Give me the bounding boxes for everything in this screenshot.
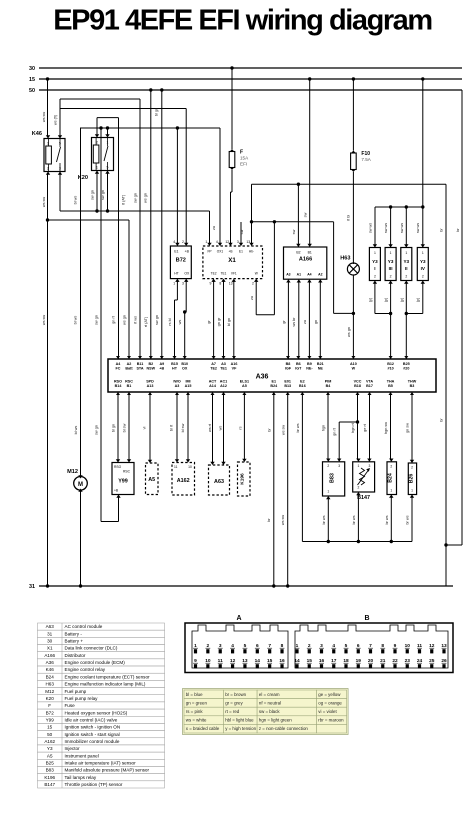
svg-text:el = cream: el = cream <box>259 692 280 697</box>
svg-text:EFI: EFI <box>240 162 247 167</box>
svg-text:ws: ws <box>178 320 182 325</box>
svg-text:B8: B8 <box>286 362 291 366</box>
svg-text:30: 30 <box>29 66 35 72</box>
svg-text:1: 1 <box>173 282 175 286</box>
svg-text:THW: THW <box>408 379 417 383</box>
svg-text:A3: A3 <box>221 362 226 366</box>
svg-text:rs = pink: rs = pink <box>186 709 204 714</box>
svg-text:nf = neutral: nf = neutral <box>259 700 281 705</box>
svg-text:A5: A5 <box>148 477 155 483</box>
svg-text:bl sw: bl sw <box>122 423 126 432</box>
svg-text:Injector: Injector <box>65 746 81 751</box>
svg-text:B3: B3 <box>410 384 415 388</box>
svg-text:7.5A: 7.5A <box>361 157 371 162</box>
svg-text:bl = blue: bl = blue <box>186 692 203 697</box>
svg-text:B25: B25 <box>46 761 55 766</box>
svg-text:A16: A16 <box>231 362 238 366</box>
svg-text:ge = yellow: ge = yellow <box>318 692 341 697</box>
svg-text:hgn rt: hgn rt <box>351 422 355 433</box>
svg-text:I: I <box>374 266 375 271</box>
svg-text:A1: A1 <box>297 273 301 277</box>
svg-text:F: F <box>48 703 51 708</box>
svg-text:A162: A162 <box>44 739 55 744</box>
svg-text:Engine control relay: Engine control relay <box>65 667 106 672</box>
svg-text:Y3: Y3 <box>388 259 394 264</box>
svg-text:OX1: OX1 <box>217 250 224 254</box>
svg-text:K46: K46 <box>46 667 55 672</box>
svg-text:rt (AT): rt (AT) <box>121 194 125 205</box>
svg-text:vi = violet: vi = violet <box>318 709 337 714</box>
svg-text:ws gn: ws gn <box>143 193 147 203</box>
svg-text:gn = green: gn = green <box>186 700 208 705</box>
svg-text:M: M <box>78 482 83 488</box>
svg-text:III: III <box>389 266 393 271</box>
svg-text:1: 1 <box>205 240 207 244</box>
svg-text:(y): (y) <box>400 297 404 302</box>
svg-text:M12: M12 <box>45 689 54 694</box>
svg-text:Hb-: Hb- <box>249 250 254 254</box>
svg-text:A3: A3 <box>286 273 290 277</box>
svg-text:B25: B25 <box>403 362 410 366</box>
svg-text:rs: rs <box>238 426 242 429</box>
svg-text:sw: sw <box>240 229 244 234</box>
svg-text:IGF: IGF <box>285 367 292 371</box>
svg-text:3: 3 <box>368 464 370 468</box>
svg-text:Y3: Y3 <box>420 259 426 264</box>
svg-text:A10: A10 <box>350 362 357 366</box>
svg-text:A12: A12 <box>220 384 227 388</box>
svg-text:IWO: IWO <box>173 379 181 383</box>
svg-text:B21: B21 <box>317 362 324 366</box>
svg-text:B15: B15 <box>171 362 178 366</box>
svg-text:1: 1 <box>107 141 109 145</box>
svg-text:H63: H63 <box>340 256 350 262</box>
svg-text:B10: B10 <box>181 362 188 366</box>
svg-text:bl gn: bl gn <box>111 424 115 432</box>
svg-text:15: 15 <box>29 77 35 83</box>
svg-text:RSO: RSO <box>114 465 122 469</box>
svg-text:E1: E1 <box>174 250 178 254</box>
svg-text:1: 1 <box>390 489 392 493</box>
svg-text:VF1: VF1 <box>231 272 237 276</box>
svg-text:Y3: Y3 <box>47 746 53 751</box>
svg-text:2: 2 <box>47 167 49 171</box>
svg-text:3: 3 <box>182 282 184 286</box>
svg-text:gn rt: gn rt <box>333 427 337 436</box>
svg-text:bl rt: bl rt <box>169 424 173 431</box>
svg-text:Ignition switch - ignition ON: Ignition switch - ignition ON <box>65 725 121 730</box>
svg-text:ws (fl): ws (fl) <box>53 114 57 125</box>
svg-text:+B: +B <box>159 367 164 371</box>
svg-text:E1: E1 <box>272 379 277 383</box>
svg-text:Idle air control (IAC) valve: Idle air control (IAC) valve <box>65 717 118 722</box>
svg-text:bl ws: bl ws <box>73 316 77 325</box>
svg-text:ws sw: ws sw <box>42 112 46 123</box>
svg-text:W: W <box>255 272 258 276</box>
svg-text:IGT: IGT <box>295 367 302 371</box>
svg-text:B72: B72 <box>176 258 186 264</box>
svg-text:A2: A2 <box>318 273 322 277</box>
svg-text:W: W <box>352 367 356 371</box>
svg-text:ACT: ACT <box>209 379 217 383</box>
svg-text:15A: 15A <box>240 156 249 161</box>
svg-text:1: 1 <box>374 251 376 255</box>
svg-text:NE-: NE- <box>306 367 313 371</box>
svg-text:5: 5 <box>59 142 61 146</box>
svg-text:og = orange: og = orange <box>318 700 342 705</box>
svg-text:ws sw: ws sw <box>281 425 285 436</box>
svg-text:PIM: PIM <box>325 379 332 383</box>
svg-text:sw gn: sw gn <box>94 315 98 325</box>
svg-text:2: 2 <box>390 465 392 469</box>
svg-text:A7: A7 <box>211 362 216 366</box>
svg-text:11: 11 <box>174 465 178 469</box>
svg-text:A63: A63 <box>46 624 55 629</box>
svg-text:E2: E2 <box>300 379 305 383</box>
svg-text:FP: FP <box>207 250 211 254</box>
svg-text:TE1: TE1 <box>220 367 227 371</box>
svg-text:9: 9 <box>209 282 211 286</box>
svg-text:A36: A36 <box>46 660 55 665</box>
svg-text:FC: FC <box>116 367 121 371</box>
svg-text:1: 1 <box>327 490 329 494</box>
svg-text:Ignition switch - start signal: Ignition switch - start signal <box>65 732 120 737</box>
svg-text:ws sw: ws sw <box>42 315 46 326</box>
svg-text:VCC: VCC <box>354 379 362 383</box>
svg-text:Battery +: Battery + <box>65 639 84 644</box>
svg-text:br = brown: br = brown <box>225 692 246 697</box>
svg-text:B9: B9 <box>307 362 312 366</box>
svg-text:sw ws: sw ws <box>384 223 388 233</box>
svg-text:B2: B2 <box>296 251 300 255</box>
svg-text:ws sw: ws sw <box>281 515 285 526</box>
svg-text:B147: B147 <box>357 495 370 501</box>
svg-text:sw ws: sw ws <box>416 223 420 233</box>
svg-text:zu: zu <box>250 296 254 300</box>
svg-text:Instrument panel: Instrument panel <box>65 753 99 758</box>
svg-text:Batt: Batt <box>125 367 133 371</box>
svg-text:sw = black: sw = black <box>259 709 280 714</box>
svg-text:B83: B83 <box>46 768 55 773</box>
svg-text:2: 2 <box>327 464 329 468</box>
svg-text:B11: B11 <box>137 362 144 366</box>
svg-text:ws: ws <box>218 426 222 431</box>
svg-text:5: 5 <box>107 166 109 170</box>
svg-text:Tail lamps relay: Tail lamps relay <box>65 775 97 780</box>
svg-text:31: 31 <box>47 631 53 636</box>
svg-text:B5: B5 <box>388 384 393 388</box>
svg-text:B14: B14 <box>115 384 123 388</box>
svg-text:B13: B13 <box>284 384 291 388</box>
svg-text:br ws: br ws <box>322 515 326 524</box>
svg-text:B72: B72 <box>46 710 55 715</box>
svg-text:A9: A9 <box>159 362 164 366</box>
svg-text:zu: zu <box>212 226 216 230</box>
svg-text:A: A <box>236 615 241 622</box>
svg-text:B18: B18 <box>354 384 361 388</box>
svg-text:vi: vi <box>142 426 146 429</box>
svg-text:4: 4 <box>216 240 218 244</box>
svg-text:Fuse: Fuse <box>65 703 76 708</box>
svg-text:ws gn: ws gn <box>122 315 126 325</box>
svg-text:Y99: Y99 <box>118 479 128 485</box>
svg-text:sw gn: sw gn <box>90 190 94 200</box>
svg-text:zu: zu <box>303 320 307 324</box>
svg-text:50: 50 <box>29 88 35 94</box>
svg-text:rt bl: rt bl <box>346 215 350 221</box>
svg-text:ws sw: ws sw <box>42 197 46 208</box>
svg-text:1: 1 <box>357 464 359 468</box>
svg-text:Immobilizer control module: Immobilizer control module <box>65 739 120 744</box>
svg-text:A162: A162 <box>177 478 190 484</box>
svg-text:rbr = maroon: rbr = maroon <box>318 718 344 723</box>
svg-text:Intake air temperature (IAT) s: Intake air temperature (IAT) sensor <box>65 761 137 766</box>
svg-text:1: 1 <box>47 142 49 146</box>
svg-text:#20: #20 <box>403 367 409 371</box>
svg-text:bl gn: bl gn <box>154 108 158 116</box>
svg-text:B1: B1 <box>308 251 312 255</box>
svg-text:A166: A166 <box>299 257 312 263</box>
svg-text:gn: gn <box>314 320 318 324</box>
svg-text:2: 2 <box>357 486 359 490</box>
svg-text:sw gn: sw gn <box>133 193 137 203</box>
svg-text:rt = red: rt = red <box>225 709 240 714</box>
svg-text:hbl = light blue: hbl = light blue <box>225 718 254 723</box>
svg-text:B26: B26 <box>408 474 414 484</box>
svg-text:B83: B83 <box>330 473 336 483</box>
svg-text:Heated oxygen sensor (HO2S): Heated oxygen sensor (HO2S) <box>65 710 128 715</box>
svg-text:TE1: TE1 <box>221 272 227 276</box>
svg-text:bl gn: bl gn <box>227 318 231 326</box>
svg-text:ELS1: ELS1 <box>240 379 249 383</box>
svg-text:A2: A2 <box>127 362 132 366</box>
svg-text:3: 3 <box>59 167 61 171</box>
svg-text:2: 2 <box>182 240 184 244</box>
svg-text:br ws: br ws <box>352 515 356 524</box>
svg-text:B16: B16 <box>299 384 306 388</box>
svg-text:rt (AT): rt (AT) <box>144 316 148 327</box>
svg-text:E1: E1 <box>239 250 243 254</box>
svg-text:B24: B24 <box>388 473 394 483</box>
svg-text:B147: B147 <box>44 782 55 787</box>
svg-text:sw ws: sw ws <box>400 223 404 233</box>
svg-text:sw gn: sw gn <box>155 315 159 325</box>
svg-text:Y3: Y3 <box>403 259 409 264</box>
svg-text:B17: B17 <box>366 384 373 388</box>
svg-text:+B: +B <box>185 250 190 254</box>
svg-text:2: 2 <box>422 275 424 279</box>
svg-text:B6: B6 <box>296 362 301 366</box>
svg-text:1: 1 <box>390 251 392 255</box>
svg-text:TE2: TE2 <box>210 367 217 371</box>
svg-text:HT: HT <box>174 272 179 276</box>
svg-text:13: 13 <box>229 282 233 286</box>
svg-text:15: 15 <box>47 725 53 730</box>
svg-text:sw ws: sw ws <box>368 223 372 233</box>
svg-text:K196: K196 <box>44 775 55 780</box>
svg-text:Engine malfunction indicator l: Engine malfunction indicator lamp (MIL) <box>65 682 146 687</box>
svg-text:K46: K46 <box>32 131 42 137</box>
svg-text:A13: A13 <box>147 384 154 388</box>
svg-text:ws br: ws br <box>292 317 296 327</box>
svg-text:Y3: Y3 <box>372 259 378 264</box>
svg-text:NSW: NSW <box>146 367 155 371</box>
svg-text:X1: X1 <box>228 257 236 264</box>
svg-text:B: B <box>364 615 369 622</box>
svg-text:2: 2 <box>390 275 392 279</box>
svg-text:sw: sw <box>292 229 296 234</box>
svg-text:3: 3 <box>338 464 340 468</box>
svg-text:ws rt: ws rt <box>208 423 212 432</box>
svg-text:VF: VF <box>232 367 237 371</box>
svg-text:H63: H63 <box>45 682 54 687</box>
svg-text:VTA: VTA <box>366 379 373 383</box>
svg-text:10: 10 <box>188 465 192 469</box>
svg-text:1: 1 <box>96 166 98 170</box>
svg-text:IMI: IMI <box>185 379 190 383</box>
svg-text:4: 4 <box>173 240 175 244</box>
svg-text:B1: B1 <box>127 384 132 388</box>
svg-text:Y99: Y99 <box>46 717 55 722</box>
svg-text:A15: A15 <box>185 384 192 388</box>
svg-text:RSO: RSO <box>114 379 122 383</box>
svg-text:2: 2 <box>374 275 376 279</box>
svg-text:br ws: br ws <box>385 515 389 524</box>
svg-text:AC1: AC1 <box>220 379 227 383</box>
svg-text:Fuel pump relay: Fuel pump relay <box>65 696 99 701</box>
svg-text:M12: M12 <box>67 469 78 475</box>
svg-text:A166: A166 <box>44 653 55 658</box>
svg-text:Fuel pump: Fuel pump <box>65 689 87 694</box>
svg-text:A4: A4 <box>307 273 311 277</box>
svg-text:A5: A5 <box>47 753 53 758</box>
svg-text:sw: sw <box>303 212 307 217</box>
svg-text:K20: K20 <box>46 696 55 701</box>
svg-text:#10: #10 <box>388 367 394 371</box>
svg-text:A36: A36 <box>256 374 269 381</box>
svg-text:Battery -: Battery - <box>65 631 83 636</box>
svg-text:1: 1 <box>411 489 413 493</box>
svg-text:Engine control module (ECM): Engine control module (ECM) <box>65 660 126 665</box>
svg-text:rt ws: rt ws <box>133 316 137 324</box>
svg-text:2: 2 <box>405 275 407 279</box>
svg-text:Data link connector (DLC): Data link connector (DLC) <box>65 646 118 651</box>
svg-text:2: 2 <box>411 466 413 470</box>
svg-text:gn rt: gn rt <box>111 315 115 324</box>
svg-text:K196: K196 <box>240 473 246 485</box>
svg-text:50: 50 <box>47 732 53 737</box>
svg-text:AC control module: AC control module <box>65 624 103 629</box>
svg-text:8: 8 <box>219 282 221 286</box>
svg-text:3: 3 <box>237 240 239 244</box>
svg-text:X1: X1 <box>47 646 53 651</box>
svg-text:OX: OX <box>184 272 190 276</box>
svg-text:hgn sw: hgn sw <box>384 422 388 434</box>
svg-text:br ws: br ws <box>405 515 409 524</box>
svg-text:A5: A5 <box>242 384 247 388</box>
svg-text:13: 13 <box>246 240 250 244</box>
svg-text:bl ws: bl ws <box>74 426 78 435</box>
svg-text:+B: +B <box>229 250 233 254</box>
svg-text:TE2: TE2 <box>211 272 217 276</box>
svg-text:B24: B24 <box>270 384 278 388</box>
svg-text:1: 1 <box>422 251 424 255</box>
svg-text:SPD: SPD <box>146 379 154 383</box>
svg-text:A3: A3 <box>175 384 180 388</box>
svg-text:RSC: RSC <box>125 379 133 383</box>
svg-text:OX: OX <box>182 367 188 371</box>
svg-text:STA: STA <box>136 367 143 371</box>
svg-text:2: 2 <box>252 282 254 286</box>
svg-text:EP91 4EFE EFI wiring diagram: EP91 4EFE EFI wiring diagram <box>53 5 431 37</box>
svg-text:1: 1 <box>405 251 407 255</box>
svg-text:bl ws: bl ws <box>73 196 77 205</box>
svg-text:br ws: br ws <box>296 423 300 432</box>
svg-text:RSC: RSC <box>123 470 131 474</box>
svg-text:gn sw: gn sw <box>405 423 409 433</box>
svg-text:A14: A14 <box>209 384 217 388</box>
svg-text:ge rt: ge rt <box>363 423 367 432</box>
svg-text:hgn = light green: hgn = light green <box>259 718 292 723</box>
svg-text:ws = white: ws = white <box>186 718 207 723</box>
svg-text:Manifold absolute pressure (MA: Manifold absolute pressure (MAP) sensor <box>65 768 150 773</box>
svg-text:x = braided cable: x = braided cable <box>186 726 220 731</box>
svg-text:(y): (y) <box>368 297 372 302</box>
svg-text:B2: B2 <box>148 362 153 366</box>
svg-text:NE: NE <box>318 367 324 371</box>
svg-text:II: II <box>405 266 408 271</box>
svg-text:bl sw: bl sw <box>181 423 185 432</box>
svg-text:(y): (y) <box>416 297 420 302</box>
svg-text:E01: E01 <box>284 379 291 383</box>
svg-text:HT: HT <box>172 367 178 371</box>
svg-text:(y): (y) <box>384 297 388 302</box>
svg-text:30: 30 <box>47 639 53 644</box>
svg-text:hgn: hgn <box>321 425 325 431</box>
svg-text:y = high tension: y = high tension <box>225 726 256 731</box>
svg-text:ws gn: ws gn <box>347 327 351 337</box>
svg-text:Engine coolant temperature (EC: Engine coolant temperature (ECT) sensor <box>65 674 150 679</box>
svg-text:B24: B24 <box>46 674 55 679</box>
svg-text:B12: B12 <box>387 362 394 366</box>
svg-text:THA: THA <box>387 379 395 383</box>
svg-text:sw gn: sw gn <box>94 425 98 435</box>
svg-text:A63: A63 <box>214 479 224 485</box>
svg-text:Distributor: Distributor <box>65 653 86 658</box>
svg-text:gn gr: gn gr <box>217 317 221 326</box>
svg-text:gr = grey: gr = grey <box>225 700 243 705</box>
svg-text:rs bl: rs bl <box>168 318 172 325</box>
svg-text:12: 12 <box>225 240 229 244</box>
svg-text:2: 2 <box>96 141 98 145</box>
svg-text:z = non-cable connection: z = non-cable connection <box>259 726 308 731</box>
svg-text:sw gn: sw gn <box>101 190 105 200</box>
svg-text:31: 31 <box>29 584 35 590</box>
svg-text:K20: K20 <box>78 175 88 181</box>
svg-text:Throttle position (TP) sensor: Throttle position (TP) sensor <box>65 782 123 787</box>
